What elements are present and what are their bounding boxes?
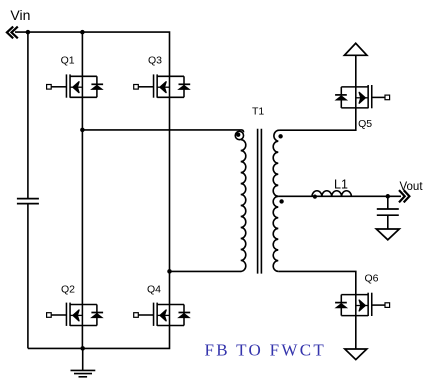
svg-text:Q5: Q5	[358, 118, 372, 130]
svg-text:Q3: Q3	[148, 54, 162, 66]
svg-text:Q6: Q6	[365, 272, 379, 284]
svg-text:Q2: Q2	[61, 284, 75, 296]
svg-text:T1: T1	[252, 106, 264, 118]
svg-text:Q1: Q1	[61, 54, 75, 66]
svg-text:Q4: Q4	[147, 284, 161, 296]
svg-text:Vin: Vin	[10, 7, 30, 23]
svg-text:Vout: Vout	[400, 181, 424, 193]
svg-text:L1: L1	[334, 178, 348, 192]
svg-text:FB TO FWCT: FB TO FWCT	[205, 341, 327, 360]
